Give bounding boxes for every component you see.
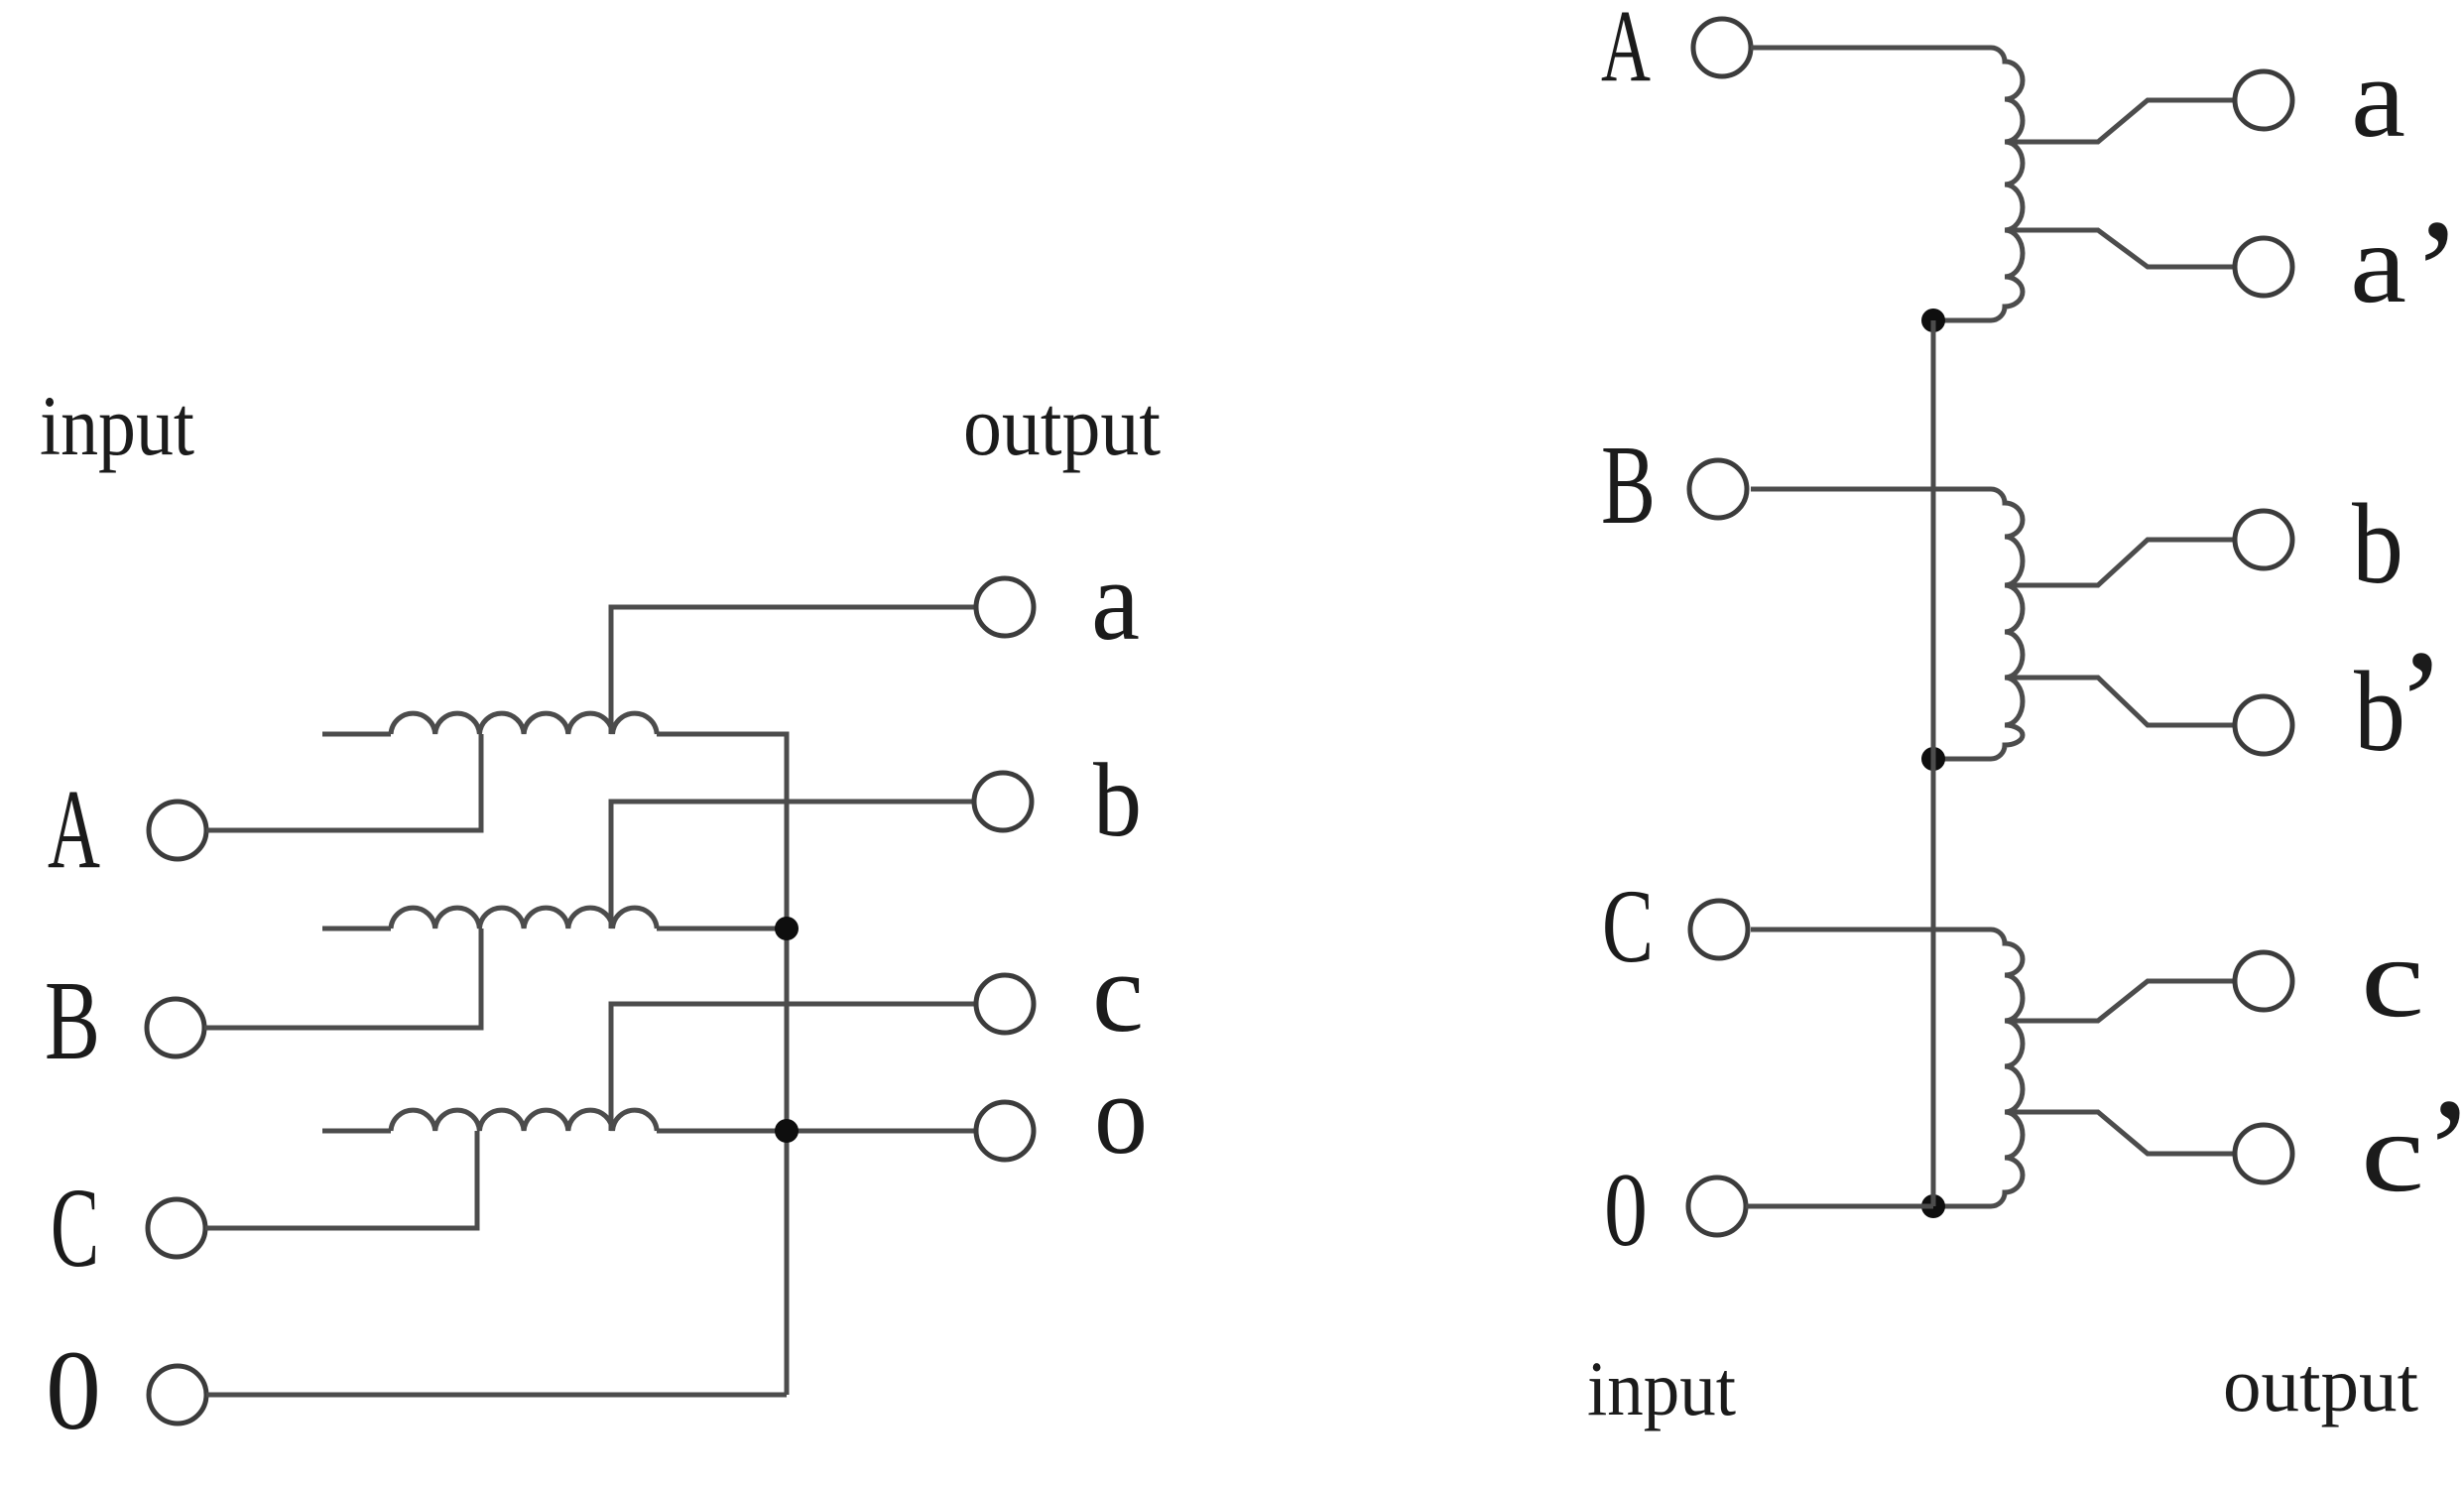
terminal B (left input) <box>147 999 204 1056</box>
junction bus with L3 end / o line <box>775 1119 799 1143</box>
svg-text:output: output <box>2223 1341 2418 1427</box>
svg-text:output: output <box>963 378 1161 473</box>
wire W1 tap to output a <box>2005 100 2235 142</box>
junction bus with L2 end <box>775 917 799 940</box>
terminal A (right input) <box>1693 19 1751 76</box>
winding W1 (phase A) with input wire A <box>1751 48 2023 320</box>
wire A to L1 tap <box>206 734 481 830</box>
wire W2 tap to output b-prime <box>2005 678 2235 725</box>
terminal C (left input) <box>148 1199 205 1257</box>
junction W3 bottom to bus / O wire <box>1921 1194 1945 1218</box>
svg-text:C: C <box>51 1165 99 1291</box>
junction W2 bottom to bus <box>1921 747 1945 771</box>
terminal a (left output) <box>976 578 1034 636</box>
inductor L1 left lead <box>322 732 391 737</box>
bus wire W1 junction to W3 junction (right) <box>1931 320 1936 1206</box>
svg-text:c: c <box>2361 1089 2424 1215</box>
svg-text:C: C <box>1602 868 1654 984</box>
terminal o (left output) <box>976 1102 1034 1160</box>
wire B to L2 tap <box>204 929 481 1028</box>
svg-text:’: ’ <box>2397 620 2446 785</box>
wire W1 tap to output a-prime <box>2005 230 2235 267</box>
wire W2 tap to output b <box>2005 540 2235 585</box>
svg-text:0: 0 <box>46 1327 101 1453</box>
junction W1 bottom to bus <box>1921 309 1945 332</box>
wire C to L3 tap <box>205 1131 477 1228</box>
svg-text:c: c <box>1092 929 1144 1055</box>
inductor L3 left lead <box>322 1129 391 1134</box>
wire W3 tap to output c-prime <box>2005 1112 2235 1154</box>
wire O to bus junction (right) <box>1746 1204 1933 1209</box>
terminal a' (right output) <box>2235 238 2292 296</box>
svg-text:c: c <box>2361 915 2424 1041</box>
inductor L1 (phase A winding) <box>391 713 657 734</box>
terminal C (right input) <box>1690 901 1748 958</box>
terminal c' (right output) <box>2235 1125 2292 1182</box>
svg-text:b: b <box>2352 481 2403 607</box>
wire L1 tap to output a <box>611 607 976 734</box>
terminal b (right output) <box>2235 511 2292 568</box>
wire L1 end to bus and bus down to O <box>657 734 787 1395</box>
svg-text:0: 0 <box>1604 1152 1648 1268</box>
svg-text:’: ’ <box>2412 189 2462 354</box>
svg-text:o: o <box>1094 1052 1148 1177</box>
svg-text:A: A <box>1601 0 1651 103</box>
svg-text:a: a <box>2350 200 2406 326</box>
wire L2 end to bus junction <box>657 927 787 931</box>
terminal b (left output) <box>974 773 1032 830</box>
inductor L2 left lead <box>322 927 391 931</box>
wire L3 tap to output c <box>611 1004 976 1131</box>
svg-text:’: ’ <box>2424 1068 2464 1233</box>
terminal O (right input neutral) <box>1688 1177 1746 1235</box>
inductor L3 (phase C winding) <box>391 1110 657 1131</box>
winding W2 (phase B) with input wire B <box>1751 489 2023 759</box>
svg-text:B: B <box>45 957 100 1083</box>
svg-text:input: input <box>1587 1345 1736 1431</box>
svg-text:input: input <box>40 378 194 473</box>
svg-text:a: a <box>2351 35 2405 161</box>
svg-text:b: b <box>1093 742 1142 858</box>
winding W3 (phase C) with input wire C <box>1751 929 2023 1206</box>
terminal b' (right output) <box>2235 696 2292 754</box>
terminal B (right input) <box>1689 460 1747 518</box>
wire L3 end through bus junction to output o <box>657 1129 976 1134</box>
terminal c (right output) <box>2235 952 2292 1010</box>
terminal A (left input) <box>149 802 206 859</box>
terminal O (left input neutral) <box>149 1366 206 1424</box>
terminal c (left output) <box>976 975 1034 1033</box>
wire O to bus <box>206 1393 787 1398</box>
svg-text:A: A <box>48 766 100 892</box>
svg-text:B: B <box>1601 422 1656 548</box>
svg-text:a: a <box>1091 538 1140 664</box>
inductor L2 (phase B winding) <box>391 908 657 929</box>
terminal a (right output) <box>2235 71 2292 129</box>
wire L2 tap to output b <box>611 802 974 929</box>
wire W3 tap to output c <box>2005 981 2235 1021</box>
